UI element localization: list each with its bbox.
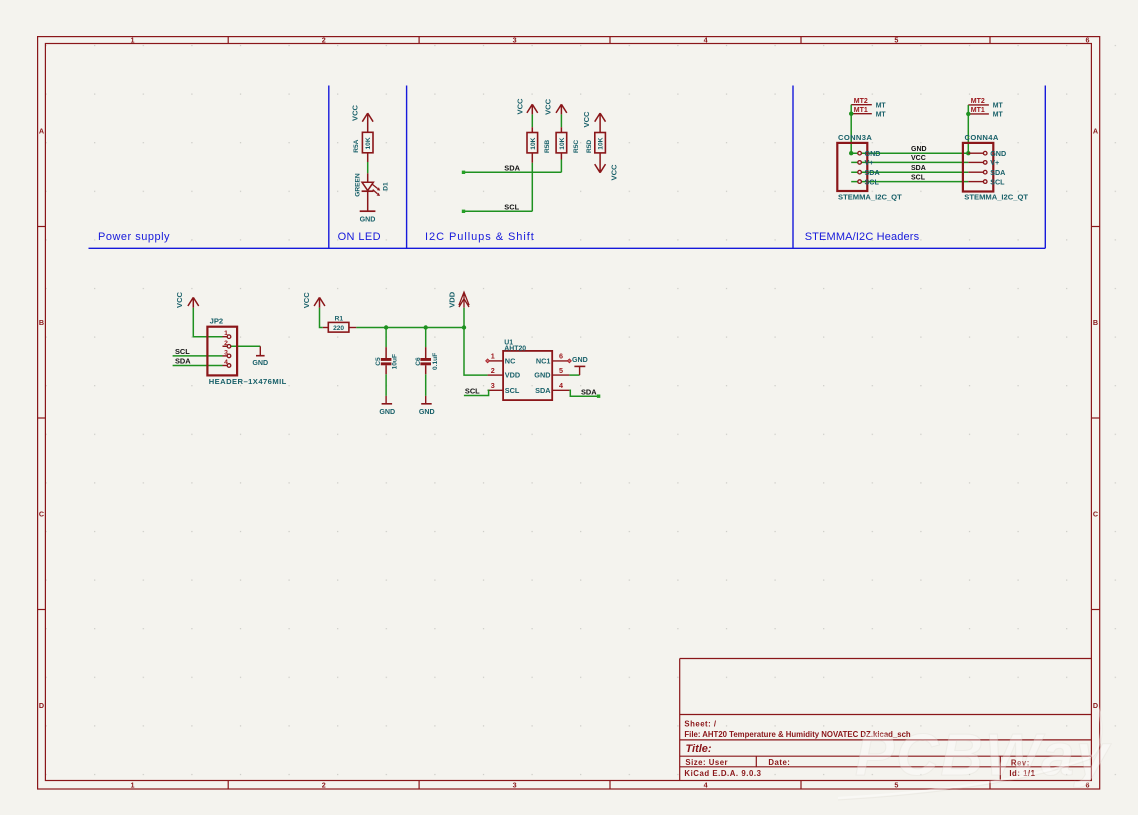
wire SDA net bbox=[851, 171, 968, 173]
resistor R5D bbox=[586, 133, 605, 154]
svg-text:HEADER–1X476MIL: HEADER–1X476MIL bbox=[209, 377, 287, 386]
svg-text:VCC: VCC bbox=[350, 104, 359, 121]
wire C6 to GND bbox=[425, 374, 427, 396]
U1 pin 5 GND bbox=[534, 366, 569, 380]
svg-text:GND: GND bbox=[865, 149, 881, 158]
svg-text:1: 1 bbox=[131, 781, 135, 790]
svg-text:2: 2 bbox=[491, 366, 495, 375]
svg-text:A: A bbox=[39, 127, 44, 136]
svg-text:SCL: SCL bbox=[911, 174, 926, 181]
wire VCC to R5C bbox=[560, 114, 562, 132]
svg-text:MT1: MT1 bbox=[854, 107, 868, 114]
svg-text:Date:: Date: bbox=[768, 758, 790, 767]
svg-text:CONN3A: CONN3A bbox=[838, 133, 872, 142]
title block bbox=[680, 659, 1092, 781]
svg-text:MT2: MT2 bbox=[971, 98, 985, 105]
junction (CONN3A MT1) bbox=[849, 112, 853, 116]
svg-text:A: A bbox=[1093, 127, 1098, 136]
svg-text:R5D: R5D bbox=[586, 140, 593, 153]
power symbol VCC (R5D bottom, inverted) bbox=[595, 153, 619, 181]
svg-text:KiCad E.D.A. 9.0.3: KiCad E.D.A. 9.0.3 bbox=[684, 769, 761, 778]
svg-text:2: 2 bbox=[322, 36, 326, 45]
wire D1 to GND bbox=[367, 191, 369, 211]
wire GND net bbox=[851, 152, 968, 154]
svg-text:10K: 10K bbox=[530, 137, 537, 149]
connector JP2 body bbox=[207, 317, 286, 387]
junction (VDD) bbox=[462, 325, 466, 329]
U1 pin 6 NC1 bbox=[536, 352, 572, 366]
svg-text:MT: MT bbox=[876, 111, 887, 118]
ground GND (C5) bbox=[379, 396, 395, 416]
svg-text:VCC: VCC bbox=[175, 291, 184, 308]
CONN3A pin names bbox=[865, 149, 881, 186]
svg-text:B: B bbox=[1093, 318, 1098, 327]
U1 pin 2 VDD bbox=[488, 366, 521, 380]
svg-text:C6: C6 bbox=[415, 357, 422, 366]
svg-text:3: 3 bbox=[513, 781, 517, 790]
wire SCL net bbox=[851, 181, 968, 183]
wire R1 to VDD node bbox=[356, 327, 464, 329]
connector CONN4A body bbox=[963, 133, 1028, 201]
connector CONN3A MT2 pin bbox=[851, 98, 886, 109]
wire SCL to JP2 pin3 bbox=[173, 355, 223, 357]
CONN4A pin circles bbox=[983, 151, 987, 183]
wire SDA (I2C pullups) bbox=[462, 171, 562, 174]
svg-text:Size: User: Size: User bbox=[685, 758, 728, 767]
U1 pin 4 SDA bbox=[535, 381, 569, 395]
svg-text:D: D bbox=[1093, 701, 1098, 710]
svg-text:3: 3 bbox=[491, 381, 495, 390]
wire MT to GND (CONN4A) bbox=[967, 105, 969, 153]
svg-text:GND: GND bbox=[419, 408, 435, 416]
junction (CONN3A GND) bbox=[849, 151, 853, 155]
svg-text:SDA: SDA bbox=[535, 386, 551, 395]
svg-text:I2C Pullups & Shift: I2C Pullups & Shift bbox=[425, 231, 535, 243]
svg-text:0.1uF: 0.1uF bbox=[432, 353, 439, 370]
section divider lines bbox=[89, 86, 1046, 249]
CONN4A pin names bbox=[990, 149, 1006, 186]
ground GND (C6) bbox=[419, 396, 435, 416]
svg-text:SDA: SDA bbox=[990, 168, 1005, 177]
svg-text:STEMMA_I2C_QT: STEMMA_I2C_QT bbox=[838, 192, 902, 201]
wire R5A to D1 bbox=[367, 153, 369, 182]
power symbol VCC (R5B) bbox=[516, 98, 538, 115]
svg-text:GND: GND bbox=[360, 216, 376, 224]
svg-text:VCC: VCC bbox=[516, 98, 525, 115]
svg-text:B: B bbox=[39, 318, 44, 327]
svg-text:4: 4 bbox=[704, 36, 708, 45]
svg-text:3: 3 bbox=[513, 36, 517, 45]
power symbol VCC (R5D top) bbox=[582, 111, 606, 133]
svg-text:MT2: MT2 bbox=[854, 98, 868, 105]
svg-text:VDD: VDD bbox=[505, 371, 520, 380]
svg-text:4: 4 bbox=[559, 381, 563, 390]
svg-text:6: 6 bbox=[1086, 36, 1090, 45]
wire VCC to JP2 pin1 bbox=[193, 308, 222, 337]
svg-text:SDA: SDA bbox=[175, 357, 191, 366]
svg-text:AHT20: AHT20 bbox=[504, 346, 526, 353]
wire U1 pin5 to GND bbox=[569, 374, 579, 376]
wire R5B to SCL bbox=[531, 153, 533, 211]
IC U1 AHT20 body bbox=[503, 340, 552, 401]
svg-text:C: C bbox=[39, 510, 44, 519]
ground GND (JP2) bbox=[252, 346, 268, 367]
svg-text:5: 5 bbox=[894, 36, 898, 45]
svg-text:VCC: VCC bbox=[302, 292, 311, 309]
ground GND (ON LED) bbox=[360, 211, 376, 223]
svg-text:GND: GND bbox=[534, 371, 550, 380]
svg-text:GND: GND bbox=[911, 146, 927, 153]
wire SDA to JP2 pin4 bbox=[173, 365, 223, 367]
svg-text:GND: GND bbox=[252, 359, 268, 367]
connector CONN3A MT1 pin bbox=[851, 107, 886, 118]
svg-text:3: 3 bbox=[224, 349, 228, 356]
LED D1 GREEN bbox=[355, 173, 390, 197]
svg-text:SDA: SDA bbox=[504, 164, 520, 173]
svg-text:SDA: SDA bbox=[911, 165, 926, 172]
resistor R5C bbox=[556, 133, 580, 154]
svg-text:1: 1 bbox=[491, 352, 495, 361]
svg-text:GND: GND bbox=[990, 149, 1006, 158]
power symbol VCC (R5C) bbox=[543, 98, 567, 115]
power symbol VDD bbox=[447, 291, 469, 308]
svg-text:Sheet: /: Sheet: / bbox=[684, 720, 716, 729]
JP2 pin circles bbox=[227, 335, 231, 367]
svg-text:GND: GND bbox=[572, 356, 588, 364]
svg-text:1: 1 bbox=[131, 36, 135, 45]
svg-text:SDA: SDA bbox=[865, 168, 880, 177]
wire C5 to GND bbox=[385, 374, 387, 396]
svg-text:MT: MT bbox=[993, 112, 1004, 119]
svg-text:Title:: Title: bbox=[686, 743, 712, 755]
svg-text:VDD: VDD bbox=[447, 291, 456, 308]
svg-text:10K: 10K bbox=[559, 137, 566, 149]
svg-text:4: 4 bbox=[704, 781, 708, 790]
power symbol VCC (ON LED) bbox=[350, 104, 373, 132]
svg-text:SCL: SCL bbox=[865, 177, 880, 186]
section titles bbox=[98, 231, 920, 243]
wire R5C to SDA bbox=[560, 153, 562, 172]
svg-text:STEMMA/I2C Headers: STEMMA/I2C Headers bbox=[805, 231, 920, 243]
svg-text:SCL: SCL bbox=[990, 177, 1005, 186]
svg-text:2: 2 bbox=[322, 781, 326, 790]
power symbol VCC (JP2) bbox=[175, 291, 199, 308]
connector CONN4A MT2 pin bbox=[968, 98, 1003, 109]
wire VCC to R1 bbox=[320, 308, 323, 328]
svg-text:C5: C5 bbox=[375, 357, 382, 366]
svg-text:MT: MT bbox=[993, 103, 1004, 110]
svg-text:NC1: NC1 bbox=[536, 357, 551, 366]
resistor R5A bbox=[353, 132, 373, 153]
CONN3A pin circles bbox=[858, 151, 862, 183]
svg-text:SCL: SCL bbox=[465, 387, 480, 396]
svg-text:VCC: VCC bbox=[543, 98, 552, 115]
svg-text:GREEN: GREEN bbox=[355, 173, 362, 197]
svg-text:SCL: SCL bbox=[175, 347, 190, 356]
junction (C6) bbox=[424, 325, 428, 329]
svg-text:10K: 10K bbox=[365, 137, 372, 149]
svg-text:SCL: SCL bbox=[504, 203, 519, 212]
svg-text:R1: R1 bbox=[335, 316, 344, 323]
svg-text:MT1: MT1 bbox=[971, 107, 985, 114]
svg-text:C: C bbox=[1093, 510, 1098, 519]
U1 pin 1 NC bbox=[486, 352, 516, 366]
svg-text:NC: NC bbox=[505, 357, 516, 366]
svg-text:PCBWay: PCBWay bbox=[855, 722, 1112, 788]
CONN4A pin stubs bbox=[968, 153, 983, 181]
capacitor C5 bbox=[375, 328, 398, 375]
svg-text:MT: MT bbox=[876, 102, 887, 109]
svg-text:R5C: R5C bbox=[573, 140, 580, 153]
ground GND (U1, inverted) bbox=[572, 356, 588, 375]
wire MT to GND (CONN3A) bbox=[850, 105, 852, 154]
svg-text:ON LED: ON LED bbox=[338, 231, 381, 243]
svg-text:SDA: SDA bbox=[581, 387, 597, 396]
svg-text:D1: D1 bbox=[382, 182, 389, 191]
svg-text:Power supply: Power supply bbox=[98, 231, 170, 243]
svg-text:10K: 10K bbox=[598, 137, 605, 149]
connector CONN4A MT1 pin bbox=[968, 107, 1003, 118]
watermark PCBWay bbox=[838, 707, 1112, 800]
resistor R1 bbox=[323, 316, 357, 332]
power symbol VCC (R1) bbox=[302, 292, 325, 309]
svg-text:10uF: 10uF bbox=[392, 354, 399, 369]
wire JP2 pin2 to GND bbox=[223, 345, 261, 347]
junction (CONN4A MT1) bbox=[966, 112, 970, 116]
svg-text:JP2: JP2 bbox=[210, 317, 224, 326]
resistor R5B bbox=[527, 133, 551, 154]
svg-text:GND: GND bbox=[379, 408, 395, 416]
svg-text:2: 2 bbox=[224, 340, 228, 347]
wire VDD to U1 pin2 bbox=[464, 308, 488, 375]
wire VCC net bbox=[851, 161, 968, 163]
U1 pin 3 SCL bbox=[488, 381, 520, 395]
svg-text:R5A: R5A bbox=[353, 139, 360, 152]
capacitor C6 bbox=[415, 328, 439, 375]
JP2 pin numbers bbox=[224, 330, 228, 366]
svg-text:VCC: VCC bbox=[609, 164, 618, 181]
svg-text:CONN4A: CONN4A bbox=[965, 133, 999, 142]
wire VCC to R5B bbox=[531, 114, 533, 132]
svg-text:1: 1 bbox=[224, 330, 228, 337]
svg-text:R5B: R5B bbox=[544, 140, 551, 153]
svg-text:6: 6 bbox=[559, 352, 563, 361]
wire U1 pin3 SCL bbox=[464, 390, 489, 395]
svg-text:4: 4 bbox=[224, 359, 228, 366]
wire U1 pin4 SDA bbox=[569, 390, 600, 398]
junction (C5) bbox=[384, 325, 388, 329]
svg-text:V+: V+ bbox=[990, 158, 999, 167]
svg-text:D: D bbox=[39, 701, 44, 710]
svg-text:220: 220 bbox=[333, 325, 344, 332]
junction (CONN4A GND) bbox=[966, 151, 970, 155]
svg-text:VCC: VCC bbox=[911, 155, 926, 162]
svg-text:V+: V+ bbox=[865, 158, 874, 167]
connector CONN3A body bbox=[837, 133, 902, 201]
JP2 pin stubs bbox=[223, 337, 228, 366]
wire SCL (I2C pullups) bbox=[462, 210, 533, 213]
svg-text:STEMMA_I2C_QT: STEMMA_I2C_QT bbox=[964, 192, 1028, 201]
svg-text:VCC: VCC bbox=[582, 111, 591, 128]
svg-text:SCL: SCL bbox=[505, 386, 520, 395]
svg-text:5: 5 bbox=[559, 366, 563, 375]
